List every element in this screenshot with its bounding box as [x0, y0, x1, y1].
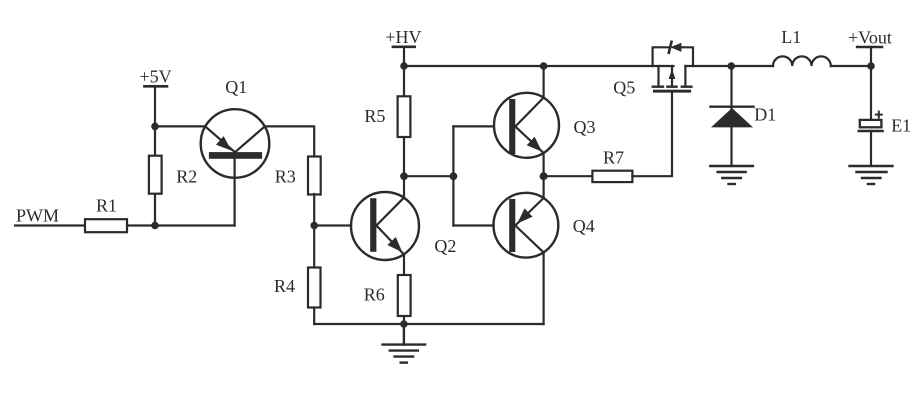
ground (below D1)	[710, 166, 753, 184]
node R1 / R2 / Q1 base junction	[151, 222, 159, 230]
wire +5V stem	[154, 86, 156, 126]
svg-text:R6: R6	[364, 285, 385, 305]
node Vout junction	[867, 62, 875, 70]
wire Q3 collector	[542, 66, 544, 98]
wire +5V node to Q1 emitter	[155, 125, 205, 127]
wire junction to Q2 base	[314, 224, 351, 226]
wire E1 branch	[870, 66, 872, 120]
ground (below R6)	[383, 324, 426, 363]
svg-text:R3: R3	[275, 167, 296, 187]
node HV rail / Q3 collector junction	[540, 62, 548, 70]
resistor R2	[149, 156, 162, 194]
resistor R7	[592, 171, 632, 182]
resistor R1	[85, 219, 127, 232]
node D1 / switch junction	[728, 62, 736, 70]
ground (below E1)	[850, 166, 893, 184]
svg-text:Q3: Q3	[574, 117, 596, 137]
node ground rail junction	[400, 320, 408, 328]
wire Q3 emitter to output node	[542, 153, 544, 176]
resistor R4	[308, 268, 321, 308]
svg-text:Q4: Q4	[573, 216, 595, 236]
wire L1 to Vout node	[831, 65, 871, 67]
wire output node to R7	[544, 175, 593, 177]
node +5V / R2 / Q1 emitter junction	[151, 123, 159, 131]
diode D1 (cathode bar on top, anode triangle pointing up)	[711, 107, 754, 128]
node R3 / R4 / Q2 base junction	[310, 222, 318, 230]
svg-text:D1: D1	[754, 105, 776, 125]
wire R3 bottom to junction	[313, 194, 315, 226]
svg-text:PWM: PWM	[16, 206, 59, 226]
svg-text:L1: L1	[781, 27, 801, 47]
wire +HV rail to Q5 source side	[404, 65, 674, 67]
wire Q1 collector to R3 top	[265, 126, 314, 157]
power +Vout terminal bar	[857, 46, 882, 49]
svg-text:R7: R7	[603, 147, 624, 167]
svg-text:R4: R4	[274, 276, 295, 296]
wire PWM input to R1 and on to Q1 base corner	[15, 224, 235, 226]
wire Q3/Q4 bases column	[452, 126, 454, 225]
resistor R6	[398, 275, 411, 316]
wire R2 branch down to PWM line	[154, 126, 156, 225]
inductor L1	[773, 56, 831, 66]
wire R4 branch down to bottom rail	[313, 226, 315, 325]
svg-text:Q2: Q2	[434, 236, 456, 256]
node bases column junction	[450, 172, 458, 180]
svg-text:R2: R2	[176, 166, 197, 186]
wire D1 node to L1	[732, 65, 774, 67]
capacitor E1 (polarized electrolytic)	[859, 112, 883, 131]
wire R7 to Q5 gate	[632, 93, 672, 177]
wire R5 branch	[403, 66, 405, 176]
wire E1 to ground	[870, 131, 872, 166]
svg-text:Q5: Q5	[613, 77, 635, 97]
wire to Q3 base	[453, 125, 494, 127]
mosfet Q5 (with body diode)	[653, 42, 693, 93]
transistor Q3 (NPN)	[494, 93, 559, 158]
wire down to Q2 collector	[403, 176, 405, 197]
wire Q4 collector to bottom rail	[542, 252, 544, 324]
node R5 bottom / Q2 collector junction	[400, 172, 408, 180]
svg-text:Q1: Q1	[225, 77, 247, 97]
transistor Q4 (PNP)	[494, 193, 559, 258]
wire junction to bases column	[404, 175, 453, 177]
wire to Q4 base	[453, 224, 493, 226]
resistor R5	[398, 96, 411, 137]
svg-text:R1: R1	[96, 195, 117, 215]
svg-text:+Vout: +Vout	[848, 28, 892, 48]
wire +HV stem	[403, 47, 405, 66]
node +HV rail junction	[400, 62, 408, 70]
resistor R3	[308, 157, 321, 195]
svg-text:+HV: +HV	[385, 27, 421, 47]
transistor Q2 (NPN)	[351, 192, 419, 260]
svg-text:R5: R5	[364, 106, 385, 126]
wire Q2 emitter through R6 to ground rail	[403, 255, 405, 325]
wire Q4 emitter	[542, 176, 544, 198]
power +HV terminal bar	[393, 45, 415, 48]
wire Q5 drain to D1 node	[685, 65, 731, 67]
node push-pull output junction	[540, 172, 548, 180]
svg-text:E1: E1	[891, 116, 911, 136]
wire bottom ground rail	[314, 323, 543, 325]
power +5V terminal bar	[144, 85, 167, 88]
transistor Q1 (PNP)	[201, 109, 270, 225]
wire +Vout stem	[870, 47, 872, 66]
wire D1 branch down to ground	[730, 66, 732, 166]
svg-text:+5V: +5V	[140, 66, 172, 86]
